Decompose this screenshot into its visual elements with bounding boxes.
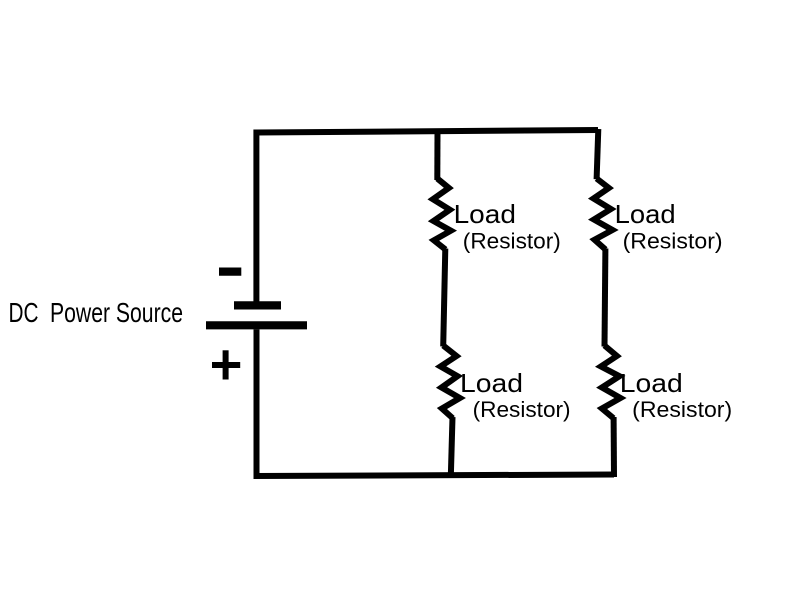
label: (Resistor) for right branch upper load [623,229,723,254]
svg-text:Load: Load [460,368,523,398]
svg-text:Load: Load [454,199,516,229]
label: (Resistor) for middle branch lower load [473,397,571,422]
svg-text:Load: Load [615,199,676,229]
wire: top bus from left corner to right corner [256,130,598,133]
wire: middle branch from R2 down to bottom bus [451,417,453,477]
battery B1 (DC power source) positive plate (long) [206,321,307,329]
wire: middle branch drop from top bus to resistor R1 [434,131,440,180]
svg-text:(Resistor): (Resistor) [623,229,723,254]
wire: right branch drop from top bus to resistor R3 [597,129,599,179]
battery minus polarity mark [219,268,241,276]
label: DC Power Source [9,297,184,328]
svg-text:(Resistor): (Resistor) [632,397,732,422]
wire: left vertical from top-left corner down to battery negative plate [253,130,259,304]
resistor R2 (middle branch, lower Load) [441,346,460,419]
svg-text:(Resistor): (Resistor) [473,397,571,422]
svg-text:DC: DC [9,297,39,328]
label: Load (middle branch lower) [460,368,523,398]
resistor R1 (middle branch, upper Load) [433,179,451,250]
wire: bottom bus from left corner to bottom-right corner [254,475,615,477]
battery plus polarity mark [212,350,240,379]
svg-text:(Resistor): (Resistor) [463,229,561,254]
wire: right branch from R4 down to bottom-right corner [611,417,617,477]
label: (Resistor) for middle branch upper load [463,229,561,254]
svg-text:Power Source: Power Source [50,297,183,328]
svg-text:Load: Load [620,368,683,398]
label: Load (right branch upper) [615,199,676,229]
resistor R3 (right branch, upper Load) [594,179,613,250]
wire: middle branch between R1 and R2 [443,249,445,347]
label: (Resistor) for right branch lower load [632,397,732,422]
label: Load (middle branch upper) [454,199,516,229]
wire: left vertical from battery positive plate down to bottom bus [254,329,260,476]
resistor R4 (right branch, lower Load) [601,346,621,419]
wire: right branch between R3 and R4 [602,249,609,347]
battery B1 (DC power source) negative plate (short) [234,301,281,309]
label: Load (right branch lower) [620,368,683,398]
